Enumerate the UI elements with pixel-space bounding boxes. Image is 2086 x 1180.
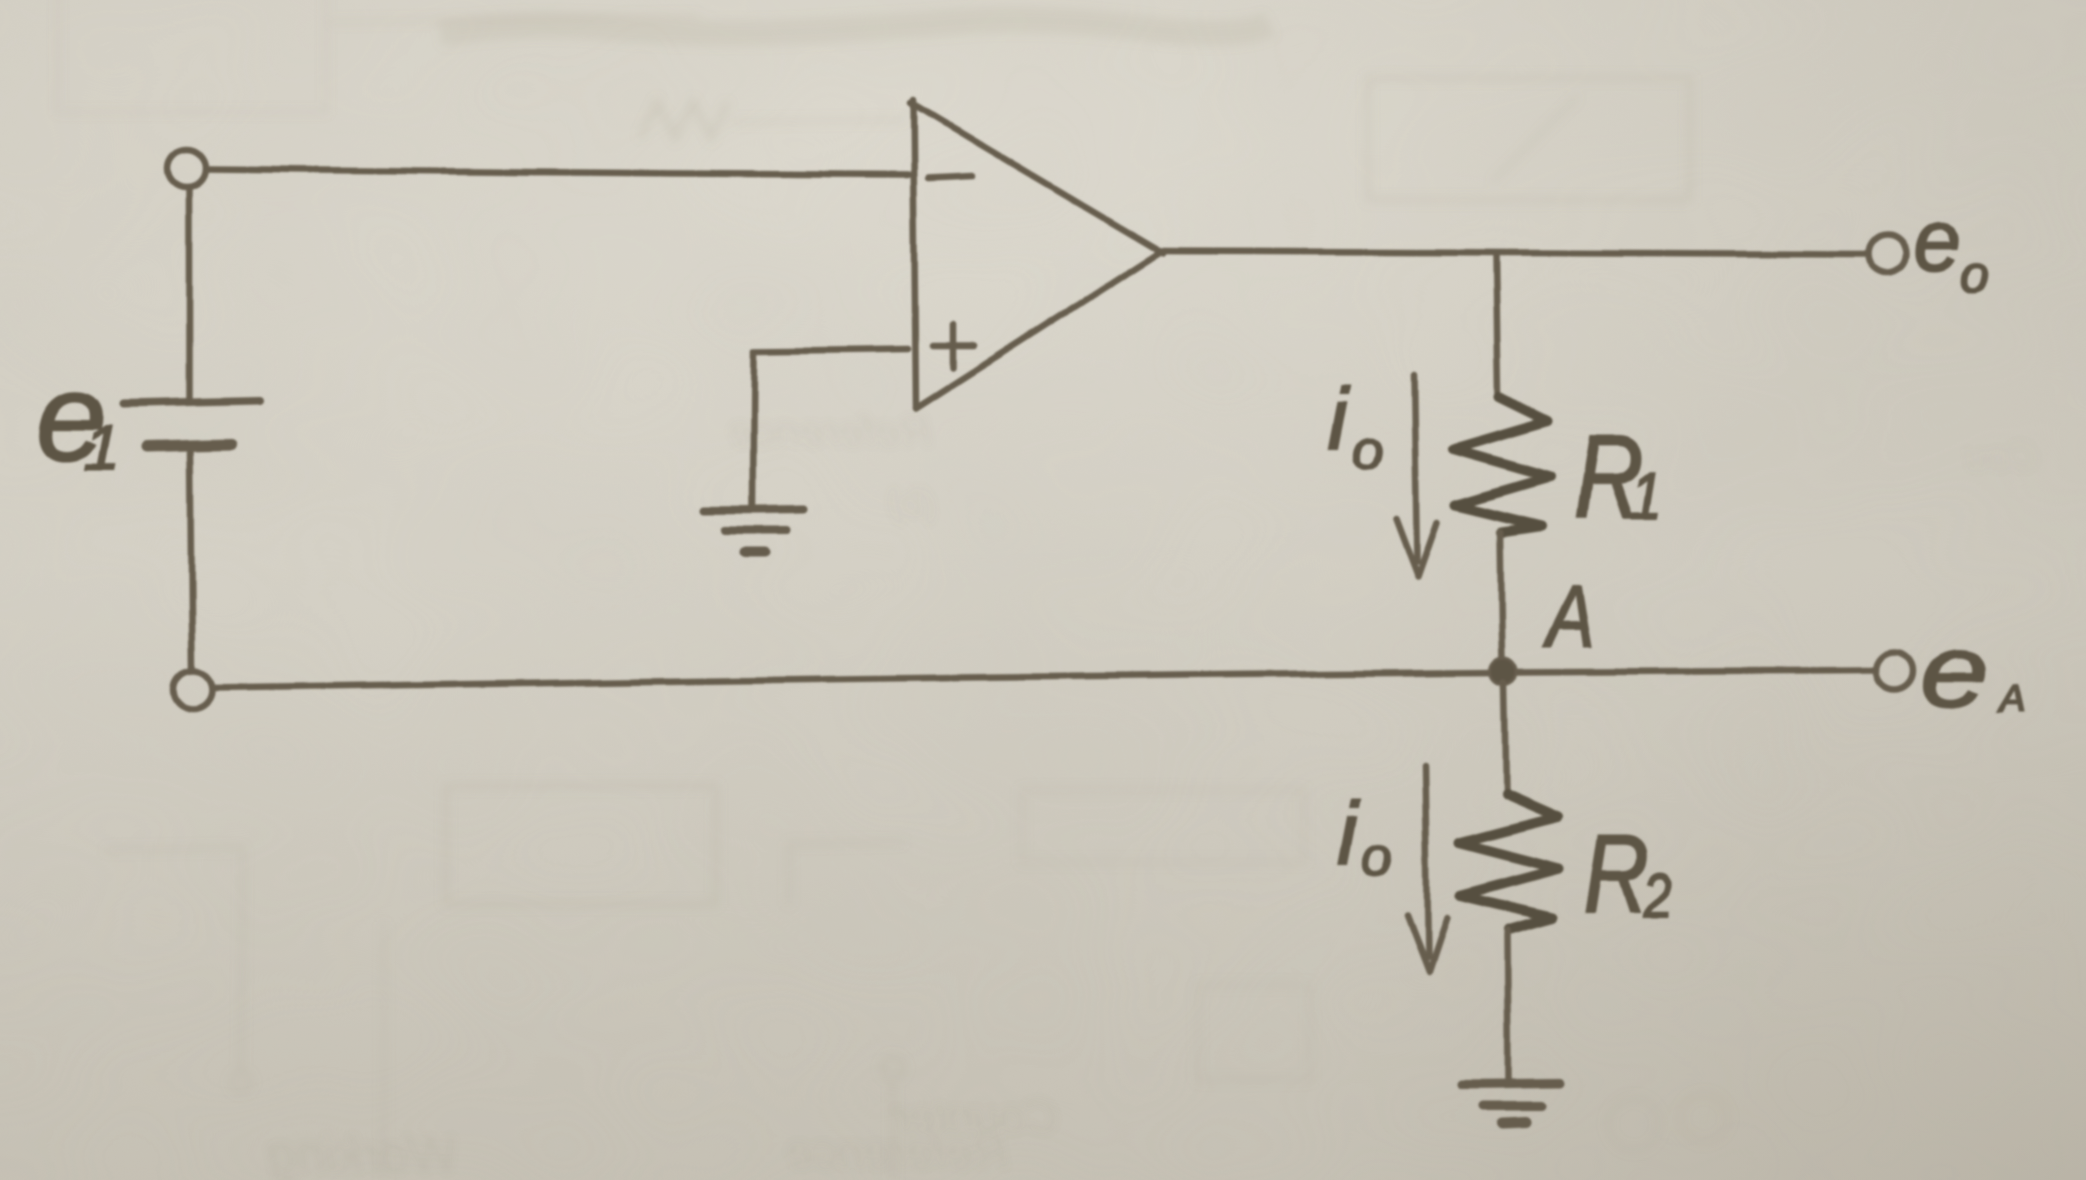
svg-text:i: i	[1328, 369, 1350, 468]
wire R1 to node A	[1501, 532, 1503, 664]
terminal eA	[1875, 652, 1913, 690]
resistor R2	[1459, 794, 1559, 930]
wire output to R1	[1496, 254, 1498, 396]
svg-text:A: A	[1543, 568, 1594, 664]
ghost circles bottom-right	[1608, 1098, 1660, 1150]
label R2	[1585, 814, 1672, 936]
svg-text:Reference: Reference	[729, 407, 932, 456]
current arrow i0 (R1)	[1396, 376, 1437, 577]
op-amp plus sign	[933, 325, 974, 368]
svg-text:A: A	[1998, 679, 2025, 721]
label R1	[1574, 411, 1662, 543]
svg-text:2: 2	[1643, 862, 1672, 931]
resistor R1	[1453, 397, 1551, 532]
svg-text:o: o	[1960, 246, 1989, 304]
ghost box top-right	[1368, 78, 1690, 200]
label eA	[1920, 616, 2025, 727]
ghost blob	[231, 1072, 251, 1092]
ghost vertical below ground	[890, 1082, 896, 1180]
wire noninverting input to ground	[753, 349, 908, 508]
node A junction	[1491, 658, 1517, 684]
op-amp minus sign	[928, 176, 972, 178]
svg-text:R: R	[1585, 814, 1650, 936]
wire op-amp output	[1160, 251, 1868, 254]
ghost box lower-middle-2	[1198, 985, 1310, 1080]
svg-text:o: o	[1352, 418, 1383, 481]
ghost box bottom-middle	[1022, 790, 1304, 862]
svg-text:(b): (b)	[887, 481, 936, 525]
ghost smudge top band	[440, 20, 1270, 34]
ground (op-amp +)	[705, 510, 803, 553]
wire battery top	[186, 187, 193, 399]
current arrow i0 (R2)	[1407, 767, 1447, 972]
battery e1 short plate	[148, 445, 230, 447]
op-amp U1	[910, 100, 1163, 408]
ghost resistor squiggle top	[640, 102, 728, 138]
label i0 (R2)	[1338, 784, 1393, 888]
label e1	[36, 346, 120, 487]
terminal bottom-left	[174, 671, 212, 709]
ghost circle small	[882, 1057, 904, 1079]
ghost wire to box	[730, 120, 905, 122]
svg-text:e: e	[1920, 616, 1990, 727]
ghost box bottom-right-partial	[789, 842, 905, 906]
ghost box top-left	[58, 0, 326, 112]
svg-text:1: 1	[84, 412, 120, 484]
svg-text:Cou: Cou	[1965, 435, 2038, 479]
svg-text:Reference: Reference	[787, 1126, 1008, 1179]
svg-text:1: 1	[1631, 459, 1662, 534]
ghost wire vertical 2	[381, 922, 387, 1180]
ghost diagonal in box	[1492, 96, 1578, 182]
svg-text:e: e	[1913, 193, 1961, 289]
wire R2 to ground	[1508, 931, 1509, 1081]
label i0 (R1)	[1328, 369, 1383, 481]
svg-text:o: o	[1362, 825, 1393, 888]
label e0	[1913, 193, 1989, 304]
wire top (e1 + to op-amp inverting input)	[206, 169, 908, 175]
wire battery bottom	[190, 452, 192, 671]
ghost box bottom-left	[446, 786, 716, 904]
terminal top-left	[168, 149, 206, 187]
svg-text:Working: Working	[267, 1126, 458, 1180]
battery e1 long plate	[123, 401, 258, 404]
ghost wire top	[330, 16, 700, 22]
ghost wire left horizontal	[104, 848, 243, 850]
ground (bottom)	[1462, 1084, 1560, 1123]
ghost wire left vertical	[241, 848, 243, 1072]
terminal e0	[1868, 235, 1906, 273]
wire node A to R2	[1504, 682, 1506, 793]
svg-text:i: i	[1338, 784, 1360, 883]
wire bottom (to node A and eA)	[212, 670, 1874, 688]
